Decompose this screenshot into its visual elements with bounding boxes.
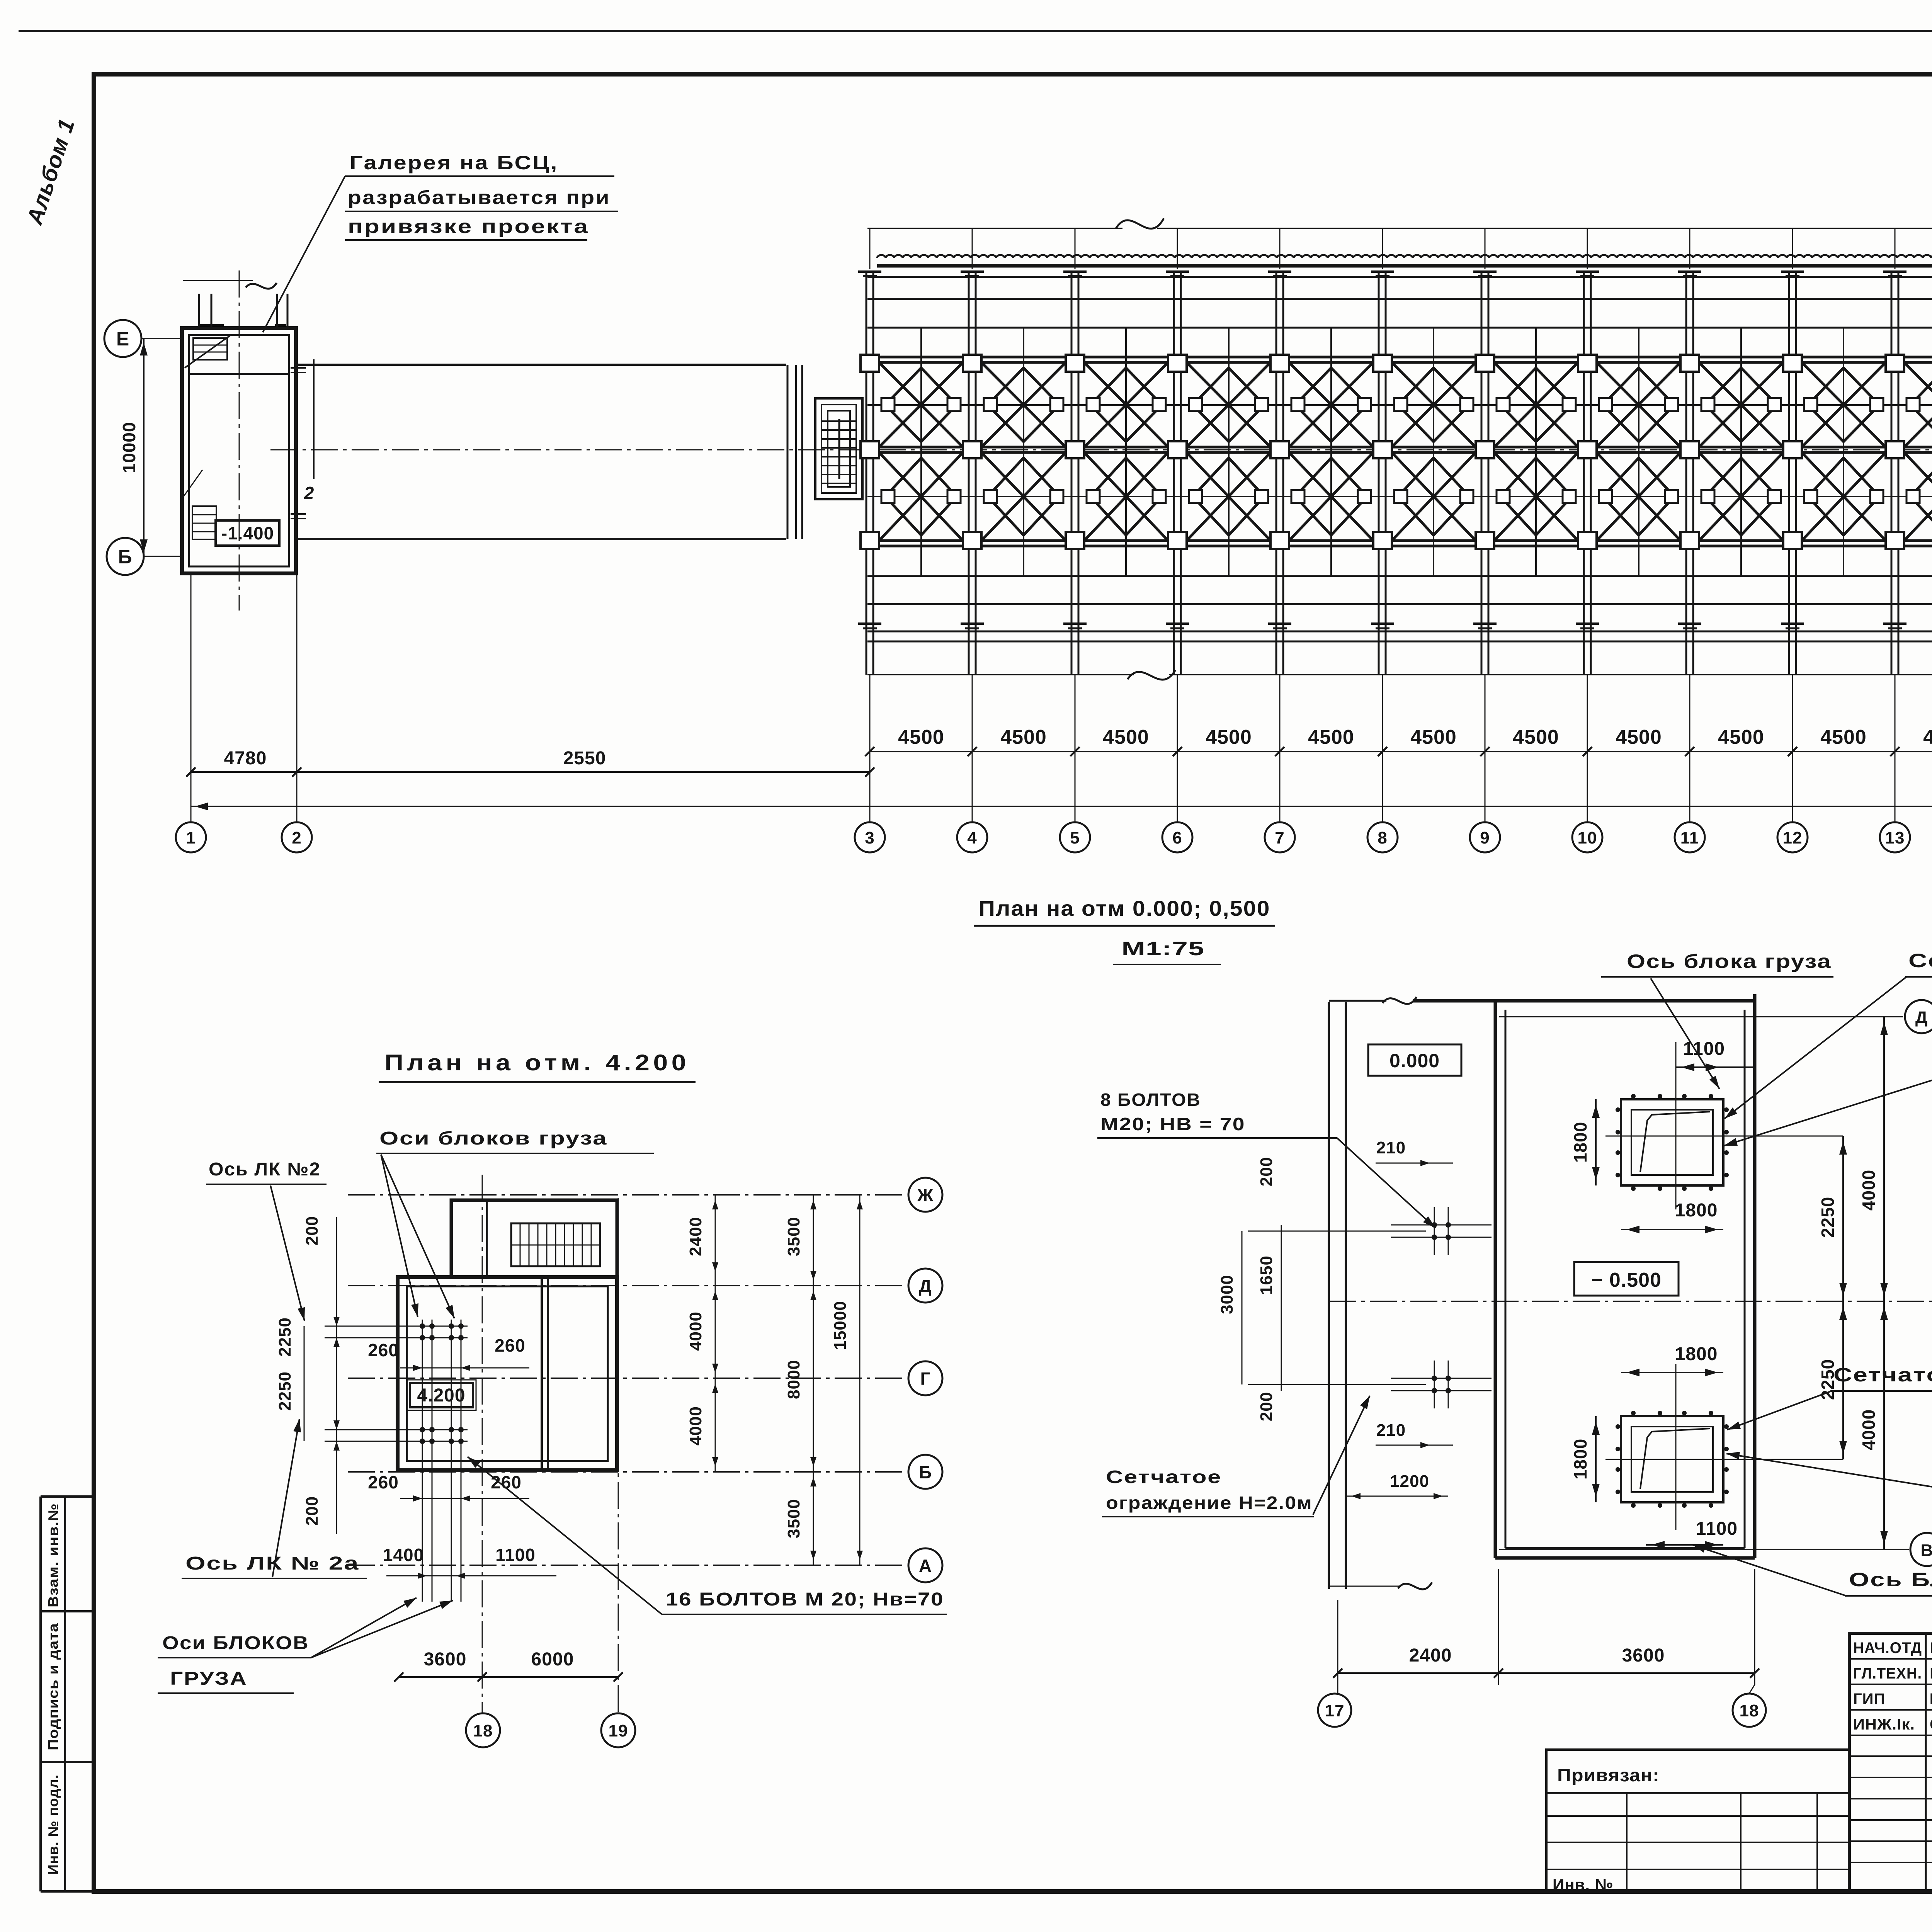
grid bubbles 1-19: [176, 822, 1932, 852]
svg-text:19: 19: [609, 1721, 628, 1740]
corridor spiral stair: [815, 398, 862, 499]
plan42 dim 1400 1100: [383, 1545, 556, 1579]
left building stair top: [185, 335, 230, 368]
svg-text:Сетчатое: Сетчатое: [1106, 1467, 1222, 1487]
lower break line under band: [867, 670, 1932, 680]
band line y1660: [867, 641, 1932, 643]
label 16 boltov: [468, 1457, 947, 1614]
axis bubble B-left: [107, 538, 182, 575]
privyazan table: [1546, 1750, 1849, 1894]
svg-text:4000: 4000: [1859, 1409, 1879, 1450]
level box 0.000: [1368, 1044, 1461, 1076]
mid plan bubble V: [1910, 1533, 1932, 1566]
mid plan bubble D: [1905, 1000, 1932, 1033]
mid plan bubble 18: [1733, 1685, 1766, 1727]
plan42 bubble 19: [601, 1713, 635, 1747]
band line y774: [867, 298, 1932, 300]
svg-text:18: 18: [473, 1721, 493, 1740]
central axis G long dash line: [270, 449, 1932, 451]
svg-text:16 БОЛТОВ М 20; Нв=70: 16 БОЛТОВ М 20; Нв=70: [666, 1589, 944, 1610]
svg-text:3500: 3500: [784, 1217, 803, 1256]
svg-text:Взам. инв.№: Взам. инв.№: [45, 1503, 61, 1607]
dimension row 4500: [865, 726, 1932, 756]
svg-text:− 0.500: − 0.500: [1591, 1269, 1662, 1291]
svg-text:Г: Г: [920, 1369, 930, 1389]
plan42 building walls: [398, 1200, 617, 1470]
band line y1563: [867, 603, 1932, 605]
label setchatoe lower-left: [1102, 1396, 1370, 1517]
svg-text:Б: Б: [118, 546, 133, 568]
crane block opening upper: [1605, 1042, 1843, 1209]
svg-text:ГИП: ГИП: [1853, 1690, 1885, 1708]
svg-text:4500: 4500: [1820, 726, 1867, 748]
signature table: [1849, 1633, 1932, 1891]
svg-text:Д: Д: [919, 1276, 932, 1296]
svg-text:260: 260: [368, 1340, 399, 1360]
left building center axis: [239, 270, 240, 611]
svg-text:2250: 2250: [1818, 1197, 1838, 1238]
column top stubs: [870, 228, 1932, 269]
label 8 boltov: [1097, 1090, 1435, 1228]
svg-text:1800: 1800: [1570, 1122, 1590, 1163]
label setchatoe right: [1727, 1364, 1932, 1430]
svg-text:1400: 1400: [383, 1545, 424, 1565]
building-corridor joint ticks: [291, 368, 306, 519]
svg-text:4500: 4500: [1206, 726, 1252, 748]
svg-text:привязке проекта: привязке проекта: [348, 216, 589, 237]
band line y848: [867, 327, 1932, 329]
svg-text:1800: 1800: [1570, 1439, 1590, 1480]
left building internal wall: [189, 373, 289, 375]
svg-text:ГЛ.ТЕХН.: ГЛ.ТЕХН.: [1853, 1665, 1922, 1682]
svg-text:10000: 10000: [119, 422, 139, 473]
svg-text:ГРУЗА: ГРУЗА: [170, 1668, 247, 1689]
svg-text:200: 200: [303, 1216, 321, 1245]
plan42 right dim chain inner: [686, 1195, 718, 1472]
plan42 dim 260 upper: [368, 1335, 529, 1371]
svg-text:СИДОРОВА: СИДОРОВА: [1930, 1716, 1932, 1733]
plan42 staircase hatch: [511, 1223, 600, 1266]
svg-text:4780: 4780: [224, 748, 267, 769]
svg-text:1650: 1650: [1257, 1255, 1276, 1295]
svg-text:М1:75: М1:75: [1122, 938, 1205, 959]
svg-text:10: 10: [1578, 828, 1597, 847]
svg-text:200: 200: [1257, 1392, 1276, 1421]
svg-text:4500: 4500: [1308, 726, 1354, 748]
svg-text:М20; НВ = 70: М20; НВ = 70: [1100, 1114, 1245, 1134]
mid plan pit walls: [1329, 994, 1755, 1558]
svg-text:Ось ЛК № 2а: Ось ЛК № 2а: [185, 1553, 359, 1574]
svg-text:200: 200: [303, 1496, 321, 1526]
left building outer wall: [182, 328, 296, 573]
svg-text:210: 210: [1376, 1421, 1406, 1440]
svg-text:План на отм 0.000; 0,500: План на отм 0.000; 0,500: [979, 896, 1270, 920]
plan42 label osi blokov bottom: [158, 1598, 453, 1693]
sheet outer trim line top: [19, 30, 1932, 32]
svg-text:КРАВЦОВ: КРАВЦОВ: [1930, 1639, 1932, 1656]
plan42 label osi blokov top: [376, 1128, 654, 1318]
dim 1800 lower-left: [1570, 1416, 1600, 1502]
svg-text:4000: 4000: [1859, 1170, 1879, 1211]
svg-text:5: 5: [1070, 828, 1080, 847]
svg-text:4.200: 4.200: [417, 1385, 465, 1406]
label os LK N2a: [1726, 1452, 1932, 1499]
gallery note text: [263, 152, 618, 332]
svg-text:2400: 2400: [686, 1217, 705, 1256]
svg-text:Сетчатое ограждение Н= 2.0: Сетчатое ограждение Н= 2.0м: [1833, 1364, 1932, 1386]
plan42 axis bubbles: [908, 1178, 942, 1582]
dim 2250 upper: [1818, 1136, 1847, 1301]
svg-text:210: 210: [1376, 1138, 1406, 1157]
mid plan axis D: [1499, 1016, 1903, 1017]
svg-text:2: 2: [304, 483, 315, 503]
svg-text:Б: Б: [919, 1462, 932, 1482]
svg-text:4: 4: [967, 828, 977, 847]
svg-text:17: 17: [1325, 1701, 1345, 1720]
dim 4000 upper: [1859, 1017, 1888, 1301]
svg-text:4500: 4500: [1718, 726, 1764, 748]
dim 4000 lower: [1859, 1301, 1888, 1549]
svg-text:4500: 4500: [1000, 726, 1047, 748]
svg-text:1800: 1800: [1675, 1344, 1718, 1364]
mid plan axis V: [1499, 1549, 1909, 1550]
level mark -1.400: [216, 520, 279, 546]
svg-text:А: А: [919, 1556, 932, 1576]
svg-text:8000: 8000: [784, 1360, 803, 1399]
column extension lines: [191, 229, 1932, 822]
svg-text:Е: Е: [116, 328, 129, 350]
band line y1491: [867, 575, 1932, 577]
svg-text:Инв. №: Инв. №: [1553, 1876, 1614, 1894]
svg-text:1100: 1100: [495, 1545, 536, 1565]
svg-text:7: 7: [1275, 828, 1284, 847]
svg-text:разрабатывается при: разрабатывается при: [348, 187, 611, 208]
svg-text:8: 8: [1378, 828, 1387, 847]
overall dimension line: [191, 803, 1932, 810]
svg-text:2250: 2250: [276, 1317, 294, 1357]
stamp text vzam inv: [45, 1503, 61, 1607]
svg-text:8 БОЛТОВ: 8 БОЛТОВ: [1100, 1090, 1201, 1110]
dim 1800 upper-bottom: [1621, 1200, 1723, 1233]
mid plan axis G: [1329, 1301, 1932, 1302]
plan title 4.200: [379, 1050, 696, 1082]
mid plan left dims: [1218, 1138, 1453, 1499]
plan42 label os LK2: [206, 1159, 327, 1321]
panel mid line row2: [867, 496, 1932, 497]
truss columns: [858, 270, 1932, 675]
plan42 bolt cluster upper: [325, 1323, 468, 1340]
svg-text:Сетчатое ограждение Н =20: Сетчатое ограждение Н =20 м: [1908, 950, 1932, 971]
svg-text:4000: 4000: [686, 1311, 705, 1351]
plan42 label os LK2a: [182, 1419, 367, 1578]
left building ladder bottom: [182, 470, 216, 539]
wall bolt group lower: [1391, 1361, 1492, 1408]
svg-text:2400: 2400: [1409, 1645, 1452, 1666]
plan title 0.000 0.500: [974, 896, 1275, 926]
top break line above roof: [867, 218, 1932, 229]
stamp column boxes: [41, 1497, 94, 1891]
level box -0.500: [1574, 1262, 1679, 1296]
svg-text:4500: 4500: [1923, 726, 1932, 748]
panel mid line row1: [867, 404, 1932, 406]
svg-text:Ось ЛК №2: Ось ЛК №2: [209, 1159, 321, 1180]
svg-text:260: 260: [368, 1472, 399, 1492]
svg-text:2: 2: [292, 828, 301, 847]
crane block opening lower: [1605, 1364, 1843, 1530]
svg-text:2250: 2250: [276, 1371, 294, 1411]
svg-text:200: 200: [1257, 1157, 1276, 1186]
dim 1100 upper: [1676, 1039, 1754, 1071]
svg-text:4000: 4000: [686, 1406, 705, 1446]
svg-text:Д: Д: [1915, 1008, 1928, 1027]
plan42 dim 3600 6000: [394, 1649, 623, 1682]
svg-text:1800: 1800: [1675, 1200, 1718, 1221]
svg-text:КУЗНЕЦОВ: КУЗНЕЦОВ: [1930, 1665, 1932, 1682]
axis bubble E: [104, 320, 182, 357]
svg-text:Подпись и дата: Подпись и дата: [45, 1623, 61, 1750]
dim 2250 lower: [1818, 1301, 1847, 1459]
mid plan bubble 17: [1318, 1685, 1351, 1727]
wall bolt group upper: [1391, 1207, 1492, 1255]
plan42 partition: [542, 1277, 548, 1470]
gallery corridor walls: [296, 365, 802, 539]
album handwritten note: [22, 116, 80, 228]
svg-text:13: 13: [1885, 828, 1905, 847]
dimension row 4780 2550 6000 6000: [186, 748, 1932, 777]
svg-text:Галерея на БСЦ,: Галерея на БСЦ,: [350, 152, 558, 173]
plan42 bolt cluster lower: [325, 1427, 468, 1444]
stamp text podpis i data: [45, 1623, 61, 1750]
plan42 axis 18 vertical: [482, 1175, 483, 1713]
svg-text:Ж: Ж: [917, 1185, 934, 1205]
mid plan bottom dims 2400 3600: [1333, 1569, 1759, 1685]
svg-text:3600: 3600: [424, 1649, 467, 1670]
svg-text:План на отм. 4.200: План на отм. 4.200: [384, 1050, 690, 1075]
svg-text:6000: 6000: [531, 1649, 574, 1670]
svg-text:11: 11: [1680, 828, 1699, 847]
label os bloka gruza top: [1601, 951, 1833, 1089]
svg-text:Инв. № подл.: Инв. № подл.: [45, 1774, 61, 1875]
svg-text:3: 3: [865, 828, 874, 847]
svg-text:4500: 4500: [1513, 726, 1559, 748]
roof scalloped edge: [877, 255, 1932, 266]
svg-text:Привязан:: Привязан:: [1557, 1765, 1660, 1785]
svg-text:6: 6: [1172, 828, 1182, 847]
svg-text:1100: 1100: [1696, 1519, 1738, 1539]
svg-text:12: 12: [1783, 828, 1803, 847]
svg-text:Ось блока груза: Ось блока груза: [1627, 951, 1832, 972]
dim 1100 lower: [1646, 1519, 1738, 1549]
svg-text:4500: 4500: [1410, 726, 1457, 748]
svg-text:ИНЖ.Iк.: ИНЖ.Iк.: [1853, 1716, 1915, 1733]
svg-text:ВИНОГРАДОВ: ВИНОГРАДОВ: [1930, 1690, 1932, 1708]
svg-text:3500: 3500: [784, 1499, 803, 1538]
svg-text:Оси блоков груза: Оси блоков груза: [379, 1128, 607, 1149]
svg-text:260: 260: [491, 1472, 522, 1492]
svg-text:3000: 3000: [1218, 1275, 1236, 1314]
left building chimney shaft: [183, 281, 287, 328]
mid plan left wall: [1329, 1002, 1432, 1589]
plan42 right dim chain outer: [831, 1195, 863, 1565]
svg-text:260: 260: [495, 1335, 526, 1355]
plan42 bubble 18: [466, 1713, 500, 1747]
svg-text:18: 18: [1740, 1701, 1759, 1720]
svg-text:4500: 4500: [898, 726, 944, 748]
svg-text:НАЧ.ОТД: НАЧ.ОТД: [1853, 1639, 1922, 1656]
truss diamond panels: [879, 328, 1932, 576]
svg-text:Ось БЛОКА ГРУЗА: Ось БЛОКА ГРУЗА: [1849, 1569, 1932, 1590]
plan42 dim 260 lower: [368, 1472, 529, 1502]
axis Zh line: [867, 276, 1932, 278]
plan scale M1:75: [1113, 938, 1221, 964]
svg-text:15000: 15000: [831, 1301, 850, 1350]
axis A line: [867, 631, 1932, 633]
signature table labels: [1853, 1639, 1932, 1733]
svg-text:1200: 1200: [1390, 1472, 1429, 1491]
svg-text:4500: 4500: [1616, 726, 1662, 748]
plan42 right dim chain mid: [784, 1195, 816, 1565]
dim 1800 lower-top: [1621, 1344, 1723, 1376]
section mark 2 on corridor: [304, 359, 315, 503]
label os LK N2: [1724, 1053, 1932, 1146]
svg-text:-1.400: -1.400: [221, 523, 274, 543]
plan42 axis 19 vertical: [618, 1198, 619, 1713]
svg-text:9: 9: [1480, 828, 1490, 847]
level box 4.200: [407, 1380, 476, 1410]
axis G beam lines: [867, 447, 1932, 452]
plan42 left dims: [276, 1216, 340, 1534]
svg-text:Оси БЛОКОВ: Оси БЛОКОВ: [162, 1633, 309, 1653]
svg-text:0.000: 0.000: [1389, 1050, 1440, 1071]
dimension 10000 vertical: [119, 338, 148, 556]
dim 1800 upper-left: [1570, 1099, 1600, 1185]
svg-text:4500: 4500: [1103, 726, 1149, 748]
label os bloka gruza bottom: [1692, 1545, 1932, 1596]
svg-text:ограждение Н=2.0м: ограждение Н=2.0м: [1106, 1493, 1313, 1513]
stamp text inv podl: [45, 1774, 61, 1875]
axis V beam lines: [867, 541, 1932, 546]
axis D beam lines: [867, 357, 1932, 362]
plan42 axis lines: [348, 1195, 903, 1565]
svg-text:В: В: [1921, 1541, 1932, 1560]
svg-text:2550: 2550: [563, 748, 606, 769]
label setchatoe H20: [1725, 950, 1932, 1119]
svg-text:1: 1: [186, 828, 196, 847]
plan42 bolt axes verticals: [422, 1320, 461, 1602]
svg-text:3600: 3600: [1622, 1645, 1665, 1666]
